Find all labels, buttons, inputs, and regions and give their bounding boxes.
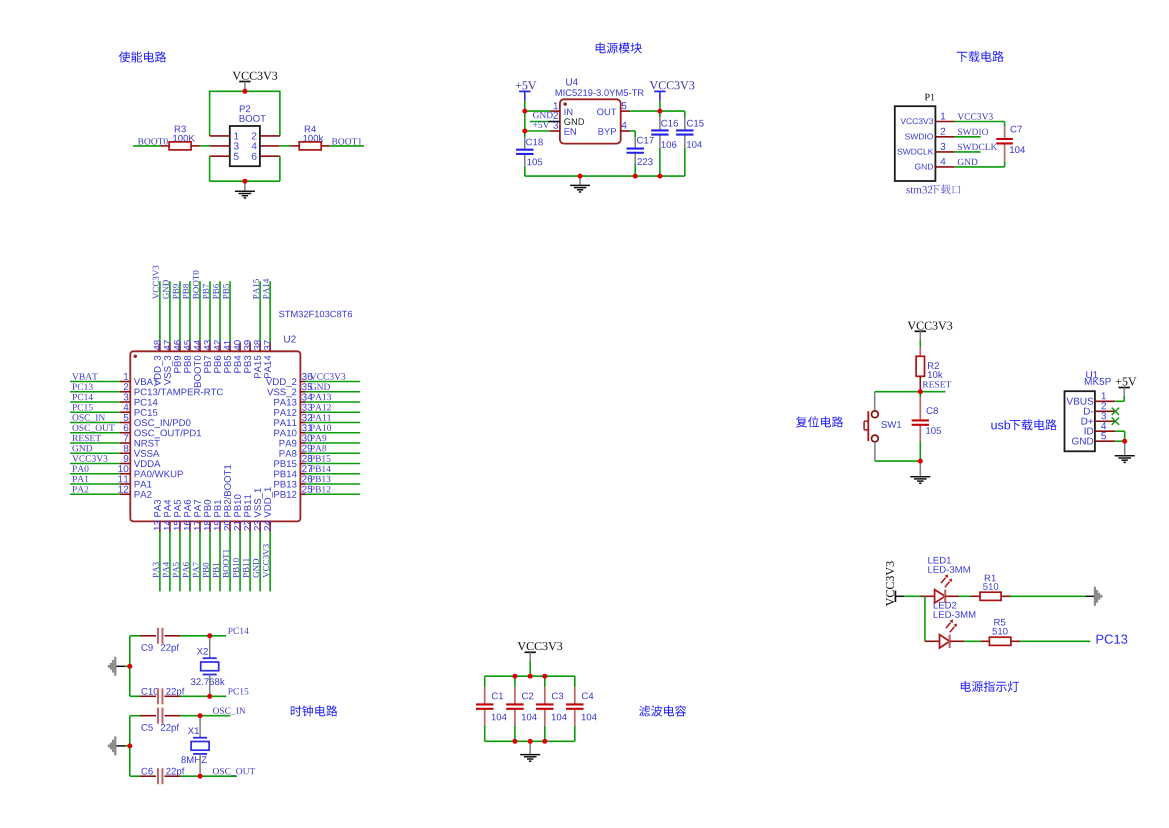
U2 pin 32 PA11 [302, 414, 312, 421]
wire U2 pin 37 [269, 281, 271, 342]
net label VCC3V3 (U2 pin 48) [153, 266, 159, 300]
capacitor C5 22pf [141, 724, 152, 731]
wire SW1 bottom [874, 442, 876, 461]
net label BOOT0 (U2 pin 44) [193, 271, 199, 299]
power +5V (input) [516, 81, 537, 89]
net label PB12 (U2 pin 25) [310, 486, 330, 492]
U2 pin 45 PB8 [184, 340, 191, 350]
node PC14 junction [207, 633, 212, 638]
U2 pin 11 PA1 [118, 476, 128, 483]
ground (8MHz, rotated) [125, 745, 130, 747]
net label OSC_IN [213, 708, 246, 716]
wire U2 pin 25 [300, 493, 305, 495]
wire U2 pin 15 [179, 521, 181, 531]
power +5V (usb) [1116, 378, 1137, 386]
ground (reset) [919, 461, 921, 476]
wire U2 pin 26 [300, 483, 305, 485]
wire U2 pin 48 [159, 281, 161, 342]
wire PC14 row [130, 635, 140, 637]
U2 pin 38 PA15 [254, 340, 261, 350]
wire U2 pin 42 [219, 281, 221, 342]
wire U2 pin 40 [239, 342, 241, 351]
ground (power module) [579, 176, 581, 185]
net label PA12 (U2 pin 33) [310, 404, 331, 410]
net label PC14 [228, 628, 249, 634]
ground (32k, rotated) [125, 665, 130, 667]
power VCC3V3 (enable) [233, 72, 278, 80]
net label PA5 (U2 pin 15) [173, 562, 179, 577]
wire R3 to P2.3 [200, 145, 211, 147]
net label +5V (U4 pin3) [533, 122, 549, 128]
wire U2 pin 16 [189, 521, 191, 531]
node C3 bottom [542, 739, 547, 744]
U2 pin 22 PB11 [244, 521, 251, 531]
U2 pin 24 VDD_1 [264, 521, 271, 531]
node ground junction (power module) [578, 174, 583, 179]
title 使能电路 [119, 51, 167, 62]
net label PA14 (U2 pin 37) [263, 279, 269, 299]
U2 pin 27 PB14 [302, 465, 312, 472]
wire C10 to X2 [180, 695, 210, 697]
wire U2 pin 9 [70, 463, 120, 465]
wire U2 pin 44 [199, 281, 201, 342]
U2 pin 47 VSS_3 [164, 340, 171, 350]
U2 pin 41 PB5 [224, 340, 231, 350]
net label VCC3V3 (U2 pin 9) [72, 455, 107, 461]
capacitor C8 105 [927, 407, 938, 414]
resistor R5 510 [994, 619, 1005, 626]
net label GND (U2 pin 35) [310, 384, 330, 390]
wire PC14 stub [210, 635, 227, 637]
U2 pin 6 OSC_OUT/PD1 [124, 424, 129, 431]
U1 pin 5 GND [1095, 440, 1115, 442]
node ground junction (8MHz) [127, 743, 132, 748]
wire top rail to P2 pins 1,2 [210, 90, 280, 92]
net label VBAT (U2 pin 1) [72, 373, 98, 379]
U2 pin 4 PC15 [124, 404, 129, 411]
wire PC15 stub [210, 695, 227, 697]
wire filter bottom rail [485, 740, 575, 742]
node OSC_OUT junction [198, 774, 203, 779]
wire P2.4 to R4 [279, 145, 290, 147]
U2 pin 2 PC13/TAMPER-RTC [124, 383, 129, 390]
wire U2 pin 39 [249, 342, 251, 351]
P1 pin 4 GND [935, 166, 954, 168]
net label PA9 (U2 pin 30) [310, 435, 326, 441]
wire U2 pin 21 [239, 521, 241, 531]
node usb ground junction [1122, 439, 1127, 444]
U2 pin 28 PB15 [302, 455, 312, 462]
P2 pin 4 [260, 145, 279, 147]
P2 pin 5 [210, 155, 230, 157]
net label GND (U2 pin 23) [253, 559, 259, 578]
wire U2 pin 33 [300, 411, 305, 413]
capacitor C1 104 [492, 693, 503, 700]
node C2 bottom [512, 739, 517, 744]
P1 pin 1 VCC3V3 [935, 121, 954, 123]
wire U2 pin 6 [70, 432, 120, 434]
capacitor C18 105 [526, 139, 543, 146]
wire SWD GND [955, 166, 1005, 168]
U1 pin 3 D+ [1095, 420, 1115, 422]
U2 pin 17 PA7 [194, 521, 201, 531]
ground (usb) [1124, 441, 1126, 455]
wire U2 pin 30 [300, 442, 305, 444]
net label PA10 (U2 pin 31) [310, 425, 331, 431]
U4 pin 2 GND [530, 121, 549, 123]
net label PC14 (U2 pin 3) [72, 394, 93, 400]
wire U2 pin 46 [179, 281, 181, 342]
wire U2 pin 23 [259, 521, 261, 531]
wire U2 pin 22 [249, 521, 251, 531]
U2 pin 37 PA14 [264, 340, 271, 350]
wire OSC_IN row [130, 715, 140, 717]
no-connect X (D+) [1112, 418, 1119, 425]
wire U2 pin 14 [169, 521, 171, 531]
U2 pin 15 PA5 [174, 521, 181, 531]
node P2 ground junction [242, 179, 247, 184]
U2 pin 44 BOOT0 [194, 340, 201, 350]
net label BOOT1 (U2 pin 20) [223, 549, 229, 577]
node C2 top [512, 674, 517, 679]
wire U2 pin 34 [300, 401, 305, 403]
net label PB10 (U2 pin 21) [233, 558, 239, 577]
U2 pin 13 PA3 [154, 521, 161, 531]
wire LED1 to R1 [959, 595, 970, 597]
U2 pin 18 PB0 [204, 521, 211, 531]
wire U2 pin 43 [209, 281, 211, 342]
U2 pin 10 PA0/WKUP [118, 465, 128, 472]
P2 pin 6 [260, 155, 280, 157]
wire SWDIO [955, 136, 981, 138]
U2 pin 20 PB2/BOOT1 [224, 521, 231, 531]
wire BOOT1 [330, 145, 364, 147]
U2 pin 48 VDD_3 [154, 340, 161, 350]
title 电源指示灯 [961, 681, 1019, 692]
node C16 bottom [657, 174, 662, 179]
led LED2 LED-3MM [934, 602, 957, 609]
U2 pin 5 OSC_IN/PD0 [124, 414, 129, 421]
U4 pin 4 BYP [621, 130, 631, 132]
net label PB1 (U2 pin 19) [213, 563, 219, 578]
U1 pin 4 ID [1095, 430, 1115, 432]
wire SWD VCC3V3 [955, 121, 1005, 123]
U2 pin 29 PA8 [302, 445, 312, 452]
title 时钟电路 [291, 705, 338, 716]
net label PC15 [228, 688, 248, 694]
net label VCC3V3 (SWD) [957, 113, 992, 119]
wire R1 to ground [1011, 595, 1086, 597]
resistor R4 100k [305, 126, 316, 133]
net label PB8 (U2 pin 45) [183, 284, 189, 299]
port PC13 [1097, 635, 1128, 644]
wire U2 pin 32 [300, 422, 305, 424]
title 滤波电容 [639, 705, 686, 716]
net label PA7 (U2 pin 17) [193, 562, 199, 577]
net label OSC_OUT [213, 768, 255, 776]
wire U2 pin 18 [209, 521, 211, 531]
net label PA11 (U2 pin 32) [310, 414, 331, 420]
U2 pin 39 PB3 [244, 340, 251, 350]
node PC15 junction [207, 694, 212, 699]
wire ID down to GND net [1115, 430, 1125, 432]
wire C5 to X1 [180, 715, 200, 717]
wire left vertical (8MHz) [129, 716, 131, 777]
net label PB11 (U2 pin 22) [243, 558, 249, 577]
U4 pin 1 IN [525, 110, 551, 112]
wire U2 pin 20 [229, 521, 231, 531]
net label BOOT1 [332, 138, 362, 144]
net label OSC_IN (U2 pin 5) [72, 414, 105, 422]
capacitor C3 104 [552, 693, 563, 700]
net label VCC3V3 (U2 pin 24) [263, 544, 269, 578]
wire VCC3V3 to LED1 [904, 595, 920, 597]
wire U2 pin 7 [70, 442, 120, 444]
mcu U2 STM32F103C8T6 [279, 311, 352, 318]
connector U1 MK5P [1086, 371, 1098, 378]
U2 pin 14 PA4 [164, 521, 171, 531]
title usb下载电路 [991, 420, 1010, 429]
wire filter top rail [485, 675, 575, 677]
node EN junction [522, 129, 527, 134]
node OSC_IN junction [198, 713, 203, 718]
capacitor C16 106 [661, 120, 678, 127]
net label GND (U2 pin 47) [163, 280, 169, 299]
net label PB9 (U2 pin 46) [173, 284, 179, 299]
resistor R3 100K [175, 126, 186, 133]
wire U2 pin 8 [70, 452, 120, 454]
net label SWDIO [958, 129, 988, 135]
net label BOOT0 [138, 138, 168, 144]
P2 pin 1 [210, 135, 230, 137]
wire U2 pin 2 [70, 391, 120, 393]
wire BOOT0 [133, 145, 161, 147]
connector P1 [925, 94, 935, 101]
node C17 bottom [633, 174, 638, 179]
U2 pin 25 PB12 [302, 486, 312, 493]
net label PB7 (U2 pin 43) [203, 284, 209, 299]
capacitor C6 22pf [141, 768, 152, 775]
net label PA13 (U2 pin 34) [310, 394, 331, 400]
U2 pin 23 VSS_1 [254, 521, 261, 531]
switch SW1 [881, 421, 901, 428]
node OUT junction [657, 109, 662, 114]
wire GND pin [1115, 440, 1125, 442]
title 电源模块 [596, 42, 642, 53]
capacitor C2 104 [522, 693, 533, 700]
net label SWDCLK [958, 144, 997, 150]
net label VCC3V3 (U2 pin 36) [310, 373, 345, 379]
U2 pin 3 PC14 [124, 393, 129, 400]
power VCC3V3 (led, rotated) [886, 561, 894, 606]
wire U2 pin 45 [189, 281, 191, 342]
power VCC3V3 (output) [650, 81, 695, 89]
U2 pin 8 VSSA [124, 445, 129, 452]
net label GND (U4 pin2) [533, 112, 553, 118]
net label PB15 (U2 pin 28) [310, 455, 330, 461]
net label PA0 (U2 pin 10) [72, 466, 88, 472]
U2 pin 7 NRST [124, 435, 129, 442]
wire U2 pin 12 [70, 493, 120, 495]
net label RESET [923, 381, 952, 387]
wire left vertical (32k) [129, 636, 131, 697]
node VCC3V3-P2 junction [242, 89, 247, 94]
title 复位电路 [796, 416, 843, 427]
U2 pin 40 PB4 [234, 340, 241, 350]
U2 pin 1 VBAT [124, 373, 128, 380]
net label PC13 (U2 pin 2) [72, 384, 92, 390]
wire U2 pin 41 [229, 281, 231, 342]
crystal X1 8MHZ [188, 727, 199, 734]
node RESET junction [918, 389, 923, 394]
wire U2 pin 35 [300, 391, 305, 393]
wire SWDCLK [955, 151, 981, 153]
no-connect X (D-) [1112, 408, 1119, 415]
P1 pin 3 SWDCLK [935, 151, 954, 153]
wire U2 pin 13 [159, 521, 161, 531]
node +5V / U4.IN junction [522, 109, 527, 114]
wire U2 pin 24 [269, 521, 271, 531]
net label RESET (U2 pin 7) [72, 435, 101, 441]
U2 pin 33 PA12 [302, 404, 312, 411]
U2 pin 43 PB7 [204, 340, 211, 350]
node C3 top [542, 674, 547, 679]
capacitor C17 223 [637, 137, 654, 144]
U2 pin 42 PB6 [214, 340, 221, 350]
regulator U4 MIC5219-3.0YM5-TR [566, 79, 578, 86]
net label PA4 (U2 pin 14) [163, 562, 169, 578]
node C8 ground junction [918, 459, 923, 464]
U2 pin 19 PB1 [214, 521, 221, 531]
crystal X2 32.768k [197, 648, 208, 655]
U2 pin 26 PB13 [302, 475, 312, 482]
U1 pin 2 D- [1095, 410, 1115, 412]
label stm32下载口 [907, 186, 933, 193]
power VCC3V3 (reset) [908, 322, 953, 330]
net label PB13 (U2 pin 26) [310, 476, 330, 482]
net label PA6 (U2 pin 16) [183, 562, 189, 577]
wire P2 pins 5,6 to ground rail [209, 156, 211, 181]
net label PA15 (U2 pin 38) [253, 279, 259, 299]
wire RESET left to SW1 [875, 391, 921, 393]
net label PA3 (U2 pin 13) [153, 562, 159, 577]
net label PC15 (U2 pin 4) [72, 404, 92, 410]
node ground junction (32k) [127, 664, 132, 669]
U2 pin 12 PA2 [118, 486, 128, 493]
net label PB6 (U2 pin 42) [213, 284, 219, 299]
U1 pin 1 VBUS [1095, 400, 1115, 402]
U2 pin 31 PA10 [302, 424, 312, 431]
wire VBUS to +5V [1115, 400, 1124, 402]
U2 pin 35 VSS_2 [302, 383, 312, 390]
wire U2 pin 38 [259, 281, 261, 342]
capacitor C4 104 [582, 693, 594, 700]
net label GND (SWD) [958, 159, 978, 165]
wire U2 pin 28 [300, 463, 305, 465]
U2 pin 46 PB9 [174, 340, 181, 350]
net label OSC_OUT (U2 pin 6) [72, 425, 114, 433]
net label GND (U2 pin 8) [72, 445, 92, 451]
net label PB0 (U2 pin 18) [203, 563, 209, 578]
node ground bottom rail [528, 739, 533, 744]
wire C9 to X2 [180, 635, 210, 637]
wire bottom rail (power module) [525, 175, 685, 177]
ground (enable) [244, 181, 246, 190]
net label PA2 (U2 pin 12) [72, 486, 88, 492]
U2 pin 36 VDD_2 [302, 373, 312, 380]
title 下载电路 [957, 51, 1004, 62]
wire U2 pin 4 [70, 411, 120, 413]
wire OSC_OUT stub [200, 775, 237, 777]
resistor R1 510 [985, 575, 996, 582]
U2 pin 34 PA13 [302, 393, 312, 400]
capacitor C15 104 [687, 120, 704, 127]
P2 pin 3 [211, 145, 230, 147]
U4 pin 3 EN [525, 130, 550, 132]
wire OUT to C15 [660, 110, 685, 112]
wire OSC_OUT row [130, 775, 140, 777]
ground (filter) [529, 741, 531, 754]
P2 pin 2 [260, 135, 280, 137]
wire U2 pin 29 [300, 452, 305, 454]
wire U2 pin 1 [70, 381, 120, 383]
P1 pin 2 SWDIO [935, 136, 954, 138]
wire U2 pin 27 [300, 473, 305, 475]
net label PB14 (U2 pin 27) [310, 466, 331, 472]
resistor R2 10k [928, 362, 939, 369]
wire U2 pin 10 [70, 473, 120, 475]
wire PC15 row [130, 695, 140, 697]
capacitor C10 22pf [142, 688, 159, 695]
net label PB5 (U2 pin 41) [223, 284, 229, 299]
wire R5 to PC13 [1020, 640, 1090, 642]
wire OSC_IN stub [200, 715, 230, 717]
capacitor C7 104 [1011, 126, 1022, 133]
U4 pin 5 OUT [621, 110, 631, 112]
U2 pin 16 PA6 [184, 521, 191, 531]
wire U2 pin 3 [70, 401, 120, 403]
capacitor C9 22pf [141, 644, 152, 651]
connector P2 BOOT [240, 105, 251, 112]
wire U2 pin 5 [70, 422, 120, 424]
wire U2 pin 19 [219, 521, 221, 531]
net label PA1 (U2 pin 11) [72, 476, 88, 482]
wire LED branch down [924, 596, 926, 641]
wire U2 pin 36 [300, 381, 305, 383]
led LED1 LED-3MM [928, 557, 951, 564]
net label PA8 (U2 pin 29) [310, 445, 326, 451]
power VCC3V3 (filter) [518, 642, 563, 650]
node VCC3V3 top rail [528, 674, 533, 679]
wire C6 to X1 [180, 775, 200, 777]
wire U2 pin 47 [169, 281, 171, 342]
wire U2 pin 11 [70, 483, 120, 485]
wire U2 pin 31 [300, 432, 305, 434]
wire RESET right [920, 391, 945, 393]
U2 pin 9 VDDA [124, 455, 129, 462]
ground (led row1, rotated) [1085, 595, 1095, 597]
U2 pin 30 PA9 [302, 434, 312, 441]
wire LED2 to R5 [964, 640, 980, 642]
wire U2 pin 17 [199, 521, 201, 531]
wire +5V down to EN row [524, 111, 526, 131]
U2 pin 21 PB10 [234, 521, 241, 531]
